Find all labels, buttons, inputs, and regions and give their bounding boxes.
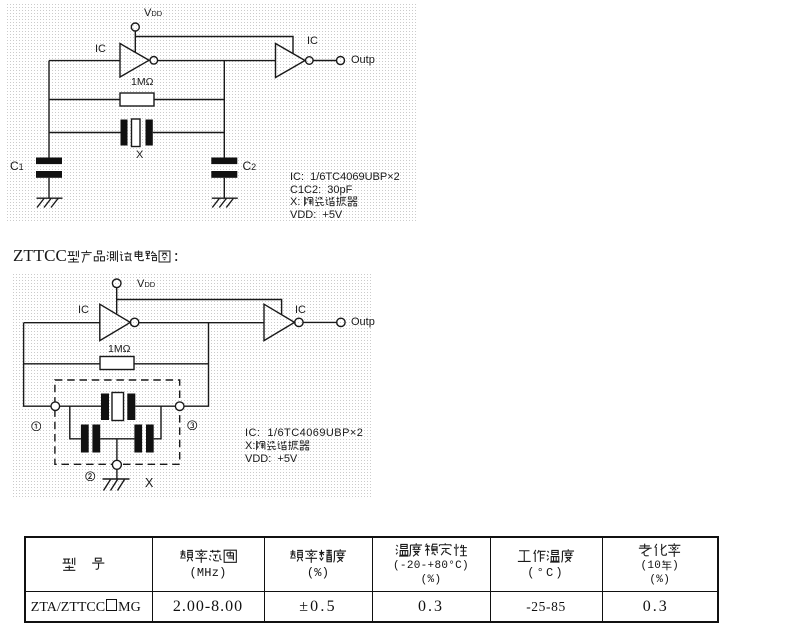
wire resistor row (49, 99, 224, 101)
node 1 terminal circle (51, 402, 60, 411)
built-in capacitor right plates (134, 425, 142, 453)
label VDD (circuit 2) (137, 278, 155, 290)
pin number 2 (85, 471, 96, 482)
dashed resonator enclosure (55, 380, 180, 464)
section heading: ZTTCC model test circuit (13, 246, 179, 266)
resonator X crystal body (132, 119, 141, 147)
wire U1 output to U2 (158, 60, 276, 62)
resonator X2 left electrode (101, 394, 109, 421)
wire node2 to ground (116, 469, 118, 479)
label X resonator 1 (136, 149, 143, 161)
wire right branch vertical (223, 61, 225, 158)
value label 1M ohm R2 (108, 343, 130, 355)
note block circuit 1 line 4 (290, 209, 342, 221)
output terminal circle Outp 2 (337, 318, 345, 326)
halftone background B (12, 272, 372, 498)
inverter U2 bubble (306, 57, 314, 65)
th working temperature (490, 537, 602, 591)
wire resistor row 2 (24, 363, 209, 365)
inverter U3 (IC) (100, 304, 131, 340)
wire VDD stem 2 (116, 288, 118, 314)
wire VDD stem (134, 31, 136, 53)
label C2 (243, 159, 257, 173)
inverter U4 bubble (295, 318, 303, 326)
ground under C2 (212, 197, 238, 199)
output terminal circle Outp (337, 57, 345, 65)
hanzi glyph symbol defs (0, 0, 4, 4)
th aging rate (602, 537, 718, 591)
frequency accuracy value (264, 591, 372, 622)
pin number 3 (187, 420, 198, 431)
halftone background A (6, 3, 416, 223)
model number value (25, 591, 152, 622)
note block circuit 2 line 1 (245, 427, 363, 439)
label VDD (circuit 1) (144, 7, 162, 19)
wire U3 output to U4 (139, 322, 264, 324)
resistor R2 1M ohm (100, 357, 134, 370)
resonator X2 crystal body (112, 393, 124, 421)
wire C2 stem (223, 178, 225, 198)
op-amp/inverter U1 (IC) (120, 44, 149, 78)
wire input to U1 (49, 60, 120, 62)
wire center cap row (100, 438, 134, 440)
label IC U1 (95, 43, 106, 55)
VDD terminal circle (circuit 2) (112, 279, 121, 288)
note block circuit 1 line 1 (290, 171, 400, 183)
capacitor C1 plates (36, 158, 62, 165)
wire C1 stem (48, 178, 50, 198)
resonator X left electrode (121, 120, 128, 146)
wire left cap drop (70, 406, 81, 439)
aging rate value (602, 591, 718, 622)
label IC U4 (295, 304, 306, 316)
spec table (24, 536, 719, 623)
ground symbol circuit 2 (103, 478, 130, 480)
ground under C1 (37, 197, 63, 199)
label Outp (circuit 2) (351, 316, 375, 328)
working temperature value (490, 591, 602, 622)
wire left branch vertical 2 (24, 323, 51, 407)
note block circuit 1 line 2 (290, 184, 352, 196)
inverter U1 bubble (150, 57, 158, 65)
note block circuit 1 line 3: X: ceramic resonator (290, 196, 358, 208)
wire right cap drop (154, 406, 161, 439)
wire node1 to crystal (60, 405, 101, 407)
inverter U4 (IC) (264, 304, 295, 340)
frequency range value (152, 591, 264, 622)
wire resonator row right (153, 132, 225, 134)
scan background region B (bottom circuit) (12, 272, 372, 498)
pin number 1 (31, 421, 42, 432)
wire VDD rail (135, 37, 293, 54)
inverter U3 bubble (130, 318, 138, 326)
th frequency range (MHz) (152, 537, 264, 591)
wire resonator row left (49, 132, 121, 134)
wire U4 output (303, 321, 337, 323)
wire U2 output (313, 60, 336, 62)
th frequency accuracy (%) (264, 537, 372, 591)
node 2 terminal circle (112, 460, 121, 469)
note block circuit 2 line 3 (245, 453, 297, 465)
label IC U2 (307, 35, 318, 47)
th model number (25, 537, 152, 591)
inverter U2 (IC) (276, 44, 306, 78)
label Outp (circuit 1) (351, 54, 375, 66)
wire right branch vertical 2 (184, 323, 208, 407)
node 3 terminal circle (175, 402, 184, 411)
VDD terminal circle (circuit 1) (131, 23, 139, 31)
scan background region A (top circuit) (6, 3, 416, 223)
value label 1M ohm R1 (131, 76, 153, 88)
th temperature stability (372, 537, 490, 591)
label X resonator 2 (145, 476, 153, 490)
built-in capacitor left plates (81, 425, 89, 453)
resistor R1 1M ohm (120, 93, 154, 106)
wire input to U3 (24, 322, 100, 324)
temperature stability value (372, 591, 490, 622)
capacitor C2 plates (211, 158, 237, 165)
label IC U3 (78, 304, 89, 316)
resonator X right electrode (146, 120, 153, 146)
resonator X2 right electrode (127, 394, 135, 421)
wire left branch vertical (48, 61, 50, 158)
label C1 (10, 159, 24, 173)
note block circuit 2 line 2 (245, 440, 310, 452)
wire pin2 stem (116, 439, 118, 461)
wire VDD rail 2 (117, 300, 282, 315)
wire crystal to node3 (135, 405, 175, 407)
